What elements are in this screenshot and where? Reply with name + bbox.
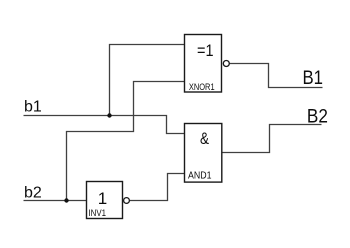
junction on b1 [107,113,111,117]
svg-text:b1: b1 [24,99,42,116]
gate AND1 body [185,124,222,183]
svg-text:1: 1 [98,189,107,208]
wire net b2 horizontal run to INV1 input [24,200,87,202]
gate XNOR1 body [185,35,222,93]
svg-text:AND1: AND1 [188,170,212,181]
svg-text:B2: B2 [307,107,328,128]
svg-text:B1: B1 [303,68,324,89]
gate INV1 output inversion bubble [124,198,130,204]
gate XNOR1 output inversion bubble [223,61,229,67]
svg-text:INV1: INV1 [89,208,107,218]
wire net b1 horizontal run to AND1 top input [24,116,185,134]
gate INV1 body [87,182,123,219]
wire AND1 output to B2 [222,125,322,153]
wire XNOR1 output to B1 [230,64,323,88]
wire INV1 output to AND1 bottom input [130,174,185,201]
svg-text:&: & [200,130,209,148]
junction on b2 [64,198,68,202]
wire net b2 branch up to XNOR1 bottom input [67,82,185,201]
svg-text:=1: =1 [197,41,214,60]
svg-text:b2: b2 [24,185,42,202]
wire net b1 branch up to XNOR1 top input [110,45,185,116]
svg-text:XNOR1: XNOR1 [189,82,215,93]
